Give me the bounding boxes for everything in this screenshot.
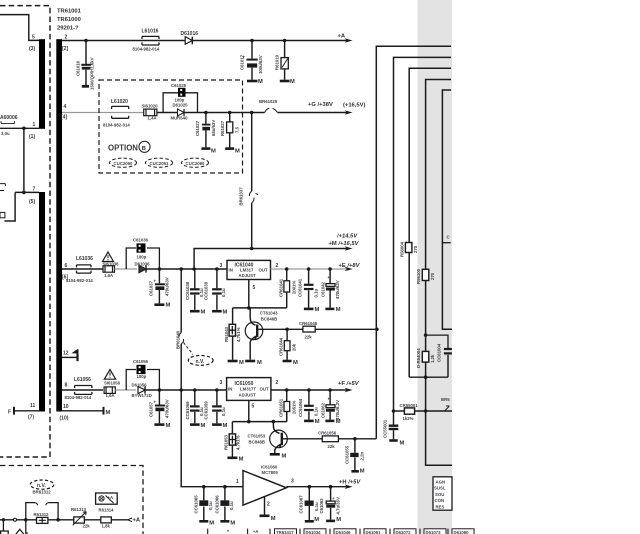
svg-text:M: M: [201, 310, 206, 316]
wire gray to diode: [115, 268, 138, 270]
svg-text:AGN: AGN: [436, 479, 446, 484]
gray option band: [418, 0, 453, 534]
svg-text:D61016: D61016: [181, 31, 199, 37]
svg-text:C61037: C61037: [149, 280, 154, 296]
pin 12 marker: [73, 349, 78, 353]
svg-text:2: 2: [267, 501, 270, 507]
dashed box border: [0, 466, 143, 534]
capacitor C61056 bypass 100p: [126, 370, 159, 391]
svg-text:CC61066: CC61066: [215, 495, 220, 514]
svg-text:/+14,5V: /+14,5V: [336, 234, 358, 240]
svg-text:TR61417: TR61417: [276, 530, 294, 534]
svg-text:+H /+5V: +H /+5V: [339, 479, 361, 485]
svg-text:OPTION: OPTION: [108, 144, 138, 153]
svg-text:2: 2: [276, 263, 279, 269]
svg-text:D61072: D61072: [396, 530, 412, 534]
bracket mark left: [0, 184, 5, 191]
capacitor C61036 bypass 100p: [126, 248, 159, 269]
svg-text:CUC2050: CUC2050: [114, 161, 133, 166]
svg-text:TR61001: TR61001: [57, 9, 82, 15]
svg-text:L61056: L61056: [74, 377, 91, 383]
capacitor CC61067: [305, 487, 314, 522]
svg-text:11: 11: [30, 403, 36, 409]
svg-text:M: M: [106, 410, 111, 416]
svg-text:TR61000: TR61000: [57, 17, 81, 23]
wire ADJ horizontal: [232, 412, 286, 422]
svg-text:CR55001: CR55001: [400, 403, 419, 408]
svg-text:3: 3: [291, 479, 294, 485]
svg-text:R61312: R61312: [34, 512, 50, 517]
svg-text:M: M: [209, 521, 214, 527]
svg-text:470u/63V: 470u/63V: [165, 399, 170, 418]
wire +E rail gray: [271, 268, 347, 270]
capacitor C61027 electrolytic: [201, 113, 210, 149]
svg-text:1: 1: [236, 479, 239, 485]
svg-text:OUT: OUT: [259, 268, 268, 273]
wire bus line 1: [376, 46, 451, 439]
svg-text:BR61037: BR61037: [239, 187, 244, 206]
svg-text:BR61040: BR61040: [175, 330, 180, 349]
warning triangle bottom: [15, 529, 25, 534]
svg-text:R61053: R61053: [224, 434, 229, 450]
wire link to 7805: [181, 390, 243, 487]
svg-text:D61073: D61073: [426, 530, 442, 534]
svg-text:L61016: L61016: [142, 29, 159, 35]
capacitor CC61004: [444, 349, 452, 377]
transformer secondary bar: [56, 39, 62, 411]
svg-text:M: M: [400, 441, 405, 447]
resistor R61019: [280, 41, 290, 82]
capacitor CC61039: [212, 269, 222, 311]
capacitor C61037 electrolytic: [154, 269, 165, 305]
svg-text:0,1u: 0,1u: [221, 288, 226, 297]
svg-text:1500/QP/H1,6kV: 1500/QP/H1,6kV: [90, 57, 95, 90]
svg-text:CC61059: CC61059: [203, 401, 208, 420]
signal box AGN: [433, 477, 452, 510]
wire pin 7: [15, 191, 39, 193]
svg-text:CR61046: CR61046: [299, 321, 318, 326]
svg-text:CC61038: CC61038: [185, 281, 190, 300]
svg-text:SI61056: SI61056: [104, 381, 121, 386]
svg-text:C61027: C61027: [195, 120, 200, 136]
svg-text:LM317T: LM317T: [240, 387, 256, 392]
inductor L61036: [77, 265, 92, 273]
capacitor CC61055 2,2n: [351, 439, 359, 472]
node dot C61016: [84, 39, 88, 43]
wire gray to diode56: [115, 389, 136, 391]
wire junction drop node A: [23, 128, 25, 192]
svg-text:22k: 22k: [328, 444, 336, 449]
trimmer R61043: [228, 308, 238, 361]
svg-text:8104-982-014: 8104-982-014: [133, 46, 160, 51]
transformer primary bar lower: [39, 192, 45, 412]
wire node to IC61040: [146, 268, 227, 270]
arrow +E: [345, 267, 353, 272]
svg-text:100p: 100p: [137, 374, 147, 379]
table box D61046: [334, 529, 356, 534]
svg-text:M: M: [336, 517, 341, 523]
svg-text:3: 3: [220, 263, 223, 269]
wire pin4 gray: [62, 112, 144, 114]
wire ADJ horizontal: [233, 307, 287, 309]
table box D61072: [394, 529, 416, 534]
svg-text:4,7u/35V: 4,7u/35V: [336, 497, 341, 515]
svg-text:C61036: C61036: [133, 238, 149, 243]
jumper BR61040: [179, 333, 184, 345]
svg-text:OUT: OUT: [260, 387, 269, 392]
svg-text:1,4A: 1,4A: [148, 115, 157, 120]
svg-text:RES: RES: [436, 505, 445, 510]
table box D61051: [364, 529, 386, 534]
svg-text:7: 7: [33, 187, 36, 193]
resistor CR55001: [404, 408, 414, 414]
svg-text:CC61065: CC61065: [194, 495, 199, 514]
svg-text:D61036: D61036: [135, 262, 151, 267]
svg-text:2001%: 2001%: [291, 280, 296, 294]
svg-text:CR61044: CR61044: [279, 337, 284, 356]
svg-text:L61020: L61020: [111, 99, 128, 105]
svg-text:CC55001: CC55001: [383, 419, 388, 438]
svg-text:12: 12: [63, 351, 69, 357]
resistor CR61044: [283, 329, 292, 361]
table box D61080: [452, 529, 474, 534]
regulator U3: IC61060 MC7805 triangle: [243, 471, 286, 506]
resistor R56100 on bus4: [422, 269, 429, 280]
svg-text:LM317: LM317: [240, 268, 254, 273]
svg-text:470u/63V: 470u/63V: [165, 277, 170, 296]
svg-text:2: 2: [276, 380, 279, 386]
svg-text:D61046: D61046: [336, 530, 352, 534]
capacitor CC61038: [190, 269, 200, 311]
svg-text:68u/63V: 68u/63V: [211, 120, 216, 136]
inductor L61056: [75, 386, 92, 395]
wire bus line 3: [409, 68, 451, 377]
svg-text:22k: 22k: [305, 335, 313, 340]
svg-text:CC61058: CC61058: [185, 401, 190, 420]
fuse SI61036: [103, 266, 115, 272]
svg-text:5: 5: [253, 285, 256, 291]
transformer primary bar upper: [39, 39, 45, 129]
svg-text:M: M: [271, 516, 276, 522]
svg-text:0,1u: 0,1u: [314, 407, 319, 416]
table box D61034: [304, 529, 326, 534]
svg-text:1,6A: 1,6A: [106, 393, 115, 398]
svg-text:M: M: [336, 419, 341, 425]
resistor CR61046: [303, 326, 315, 332]
resistor CR61051: [284, 390, 290, 422]
bracket under A60006: [1, 121, 15, 123]
capacitor C61057 electrolytic: [154, 390, 165, 425]
svg-text:(+16,5V): (+16,5V): [343, 102, 365, 108]
svg-text:270: 270: [430, 272, 435, 280]
arrow +G: [345, 110, 353, 115]
svg-text:[2]: [2]: [62, 46, 68, 52]
svg-text:0,1u: 0,1u: [208, 501, 213, 510]
capacitor C61042 electrolytic: [325, 269, 335, 309]
wire ADJ pin5: [248, 280, 250, 308]
svg-text:IC61060: IC61060: [261, 464, 278, 469]
wire 7805 ground pin 2: [264, 497, 266, 515]
svg-text:3,0u: 3,0u: [1, 131, 10, 136]
svg-text:M: M: [290, 79, 295, 85]
wire +H rail: [286, 486, 347, 488]
svg-text:CC61041: CC61041: [298, 278, 303, 297]
svg-text:CC61055: CC61055: [344, 445, 349, 464]
svg-text:+E /+8V: +E /+8V: [339, 263, 361, 269]
svg-text:CT61053: CT61053: [248, 433, 266, 438]
resistor R61027: [225, 113, 234, 149]
capacitor CC61059: [212, 390, 222, 425]
svg-text:D61034: D61034: [306, 530, 322, 534]
wire stub C1: [442, 242, 450, 244]
svg-text:29201-?: 29201-?: [57, 26, 79, 32]
svg-text:D61080: D61080: [454, 530, 470, 534]
pin M terminal bottom: [62, 407, 104, 415]
svg-text:BR5: BR5: [441, 397, 450, 402]
svg-text:BYW172D: BYW172D: [132, 393, 152, 398]
svg-text:M: M: [258, 79, 263, 85]
wire node to IC61050: [145, 389, 227, 391]
pin F terminal: [14, 407, 39, 415]
svg-text:C61017: C61017: [240, 54, 245, 70]
svg-text:+A: +A: [253, 529, 259, 534]
wire pin 1: [0, 127, 39, 129]
svg-text:*: *: [227, 530, 229, 534]
svg-text:1,2k: 1,2k: [430, 354, 435, 363]
table box TR61417: [275, 529, 297, 534]
table box D61073: [424, 529, 446, 534]
connector box left edge: [0, 212, 5, 217]
transistor Q1: CT61043 BC846B: [245, 322, 263, 340]
svg-text:[4]: [4]: [61, 115, 67, 121]
svg-text:1: 1: [33, 122, 36, 128]
svg-text:CC61067: CC61067: [298, 495, 303, 514]
svg-text:+A: +A: [133, 517, 141, 523]
svg-text:M: M: [166, 423, 171, 429]
svg-text:0,1u: 0,1u: [229, 501, 234, 510]
svg-text:D-R64004: D-R64004: [416, 348, 421, 368]
svg-text:SI61020: SI61020: [142, 103, 159, 108]
resistor DR64004 on bus4: [422, 351, 429, 362]
svg-text:+G /+38V: +G /+38V: [308, 102, 333, 108]
svg-text:(10): (10): [60, 416, 69, 422]
wire ADJ pin5: [248, 400, 250, 421]
wire BR61040 vertical upper: [180, 269, 182, 333]
left block dashed border: [0, 6, 50, 457]
wire +A rail: [62, 40, 348, 42]
capacitor CC61065: [199, 487, 208, 522]
svg-text:M: M: [315, 307, 320, 313]
svg-text:IN: IN: [228, 387, 232, 392]
svg-text:2: 2: [65, 35, 68, 41]
svg-text:L61036: L61036: [76, 256, 93, 262]
arrow +M: [345, 246, 353, 251]
capacitor CC61064: [304, 390, 314, 421]
wire bus line 4: [426, 80, 452, 466]
resistor R56004 on bus3: [405, 243, 412, 253]
capacitor C61062 electrolytic: [325, 390, 335, 421]
svg-text:M: M: [314, 517, 319, 523]
svg-text:R61019: R61019: [275, 54, 280, 70]
svg-text:C61025: C61025: [171, 83, 187, 88]
svg-text:0,1u: 0,1u: [221, 407, 226, 416]
svg-text:A60006: A60006: [0, 115, 18, 121]
wire main row: [0, 519, 128, 521]
svg-text:B: B: [142, 146, 146, 152]
svg-text:R61043: R61043: [224, 326, 229, 342]
svg-text:CC61039: CC61039: [203, 281, 208, 300]
wire to pin 5: [0, 15, 39, 41]
arrow +H: [345, 484, 353, 489]
jumper BR61037: [249, 191, 254, 203]
svg-text:ADJUST: ADJUST: [239, 393, 257, 398]
svg-text:4,7k1%: 4,7k1%: [236, 435, 241, 450]
svg-text:M: M: [239, 457, 244, 463]
svg-text:n.V.: n.V.: [196, 359, 205, 365]
svg-text:C61016: C61016: [76, 60, 81, 76]
wire base to bus: [338, 438, 376, 440]
svg-text:2,2n: 2,2n: [360, 452, 365, 461]
wire left stub: [5, 192, 16, 221]
svg-text:M: M: [235, 149, 240, 155]
svg-text:R61027: R61027: [220, 120, 225, 136]
inductor L61020: [112, 106, 129, 118]
wire +M rail: [194, 249, 347, 270]
svg-text:F: F: [8, 410, 11, 416]
svg-text:4,7k1%: 4,7k1%: [236, 327, 241, 342]
wire base CT61053: [283, 438, 322, 440]
resistor R61313 variable: [74, 517, 85, 523]
svg-text:8104-982-014: 8104-982-014: [65, 395, 92, 400]
wire BR61037 vertical: [251, 113, 253, 192]
svg-text:CC61064: CC61064: [298, 398, 303, 417]
svg-text:SUSL: SUSL: [434, 486, 446, 491]
svg-text:C61057: C61057: [149, 401, 154, 417]
corner box bottom left: [1, 531, 9, 534]
svg-text:R61313: R61313: [71, 507, 87, 512]
svg-text:M: M: [282, 453, 287, 459]
svg-text:CR61041: CR61041: [278, 278, 283, 297]
wire +G out: [278, 112, 348, 114]
svg-text:C61042: C61042: [321, 281, 326, 297]
svg-text:M: M: [293, 360, 298, 366]
wire bottom link y377: [409, 376, 448, 378]
svg-text:D61025: D61025: [173, 103, 189, 108]
wire +G mid: [157, 112, 265, 114]
svg-text:C: C: [447, 235, 450, 240]
svg-text:CON: CON: [435, 498, 445, 503]
svg-text:BC848B: BC848B: [249, 439, 265, 444]
svg-text:1k2%: 1k2%: [403, 416, 414, 421]
capacitor C61063 electrolytic 4,7u: [326, 487, 335, 521]
svg-text:(7): (7): [28, 415, 34, 421]
jumper BR61312 loop: [26, 503, 58, 520]
wire cap link: [426, 335, 448, 348]
option oval CUC2051: [146, 158, 173, 167]
OPTION dashed box: [99, 80, 243, 173]
svg-text:SOU: SOU: [435, 492, 444, 497]
svg-text:R61314: R61314: [99, 508, 115, 513]
svg-text:8104-982-014: 8104-982-014: [103, 122, 130, 127]
svg-text:MC7805: MC7805: [262, 470, 279, 475]
svg-text:+M /+16,5V: +M /+16,5V: [329, 241, 360, 247]
svg-text:5: 5: [252, 404, 255, 410]
LDR icon box: [96, 493, 118, 504]
wire drop to box: [2, 520, 4, 531]
capacitor C61017 electrolytic: [247, 41, 258, 82]
wire down from node: [25, 520, 27, 534]
svg-text:470u/63V: 470u/63V: [335, 280, 340, 299]
svg-text:M: M: [315, 419, 320, 425]
svg-text:M: M: [211, 149, 216, 155]
svg-text:3: 3: [220, 380, 223, 386]
option oval CUC2050: [110, 158, 137, 167]
fuse SI61020: [144, 109, 157, 116]
terminal circle: [14, 518, 17, 521]
resistor CR61041: [284, 269, 290, 308]
wire CR55001 row: [394, 410, 453, 412]
svg-text:M: M: [230, 521, 235, 527]
resistor CR61056: [322, 436, 338, 442]
svg-text:C61056: C61056: [133, 359, 149, 364]
svg-text:CUC2051: CUC2051: [150, 161, 169, 166]
svg-text:n.V.: n.V.: [37, 483, 46, 489]
svg-text:6: 6: [65, 263, 68, 269]
node dot 7: [22, 191, 26, 195]
svg-text:(3): (3): [29, 46, 35, 52]
wire bus line 2: [394, 57, 452, 411]
capacitor CC61041: [304, 269, 314, 309]
fuse SI61056 warning triangle: [104, 370, 115, 380]
op-amp U1: IC61040 regulator box: [227, 260, 271, 279]
wire +F rail: [271, 389, 348, 391]
svg-text:BC846B: BC846B: [261, 316, 277, 321]
svg-text:22k: 22k: [83, 524, 91, 529]
oval n.V. BR61312: [30, 480, 54, 489]
svg-text:CR61056: CR61056: [318, 430, 337, 435]
svg-text:CR61051: CR61051: [278, 398, 283, 417]
svg-text:8: 8: [65, 383, 68, 389]
svg-text:M: M: [223, 423, 228, 429]
op-amp U2: IC61050 regulator box: [227, 378, 271, 401]
capacitor CC61058: [190, 390, 200, 425]
svg-text:270: 270: [413, 245, 418, 253]
svg-text:M: M: [166, 303, 171, 309]
svg-text:(1): (1): [29, 134, 35, 140]
svg-text:C61063: C61063: [319, 498, 324, 514]
svg-text:0,1u: 0,1u: [313, 289, 318, 298]
svg-text:D61051: D61051: [366, 530, 382, 534]
svg-text:M: M: [239, 360, 244, 366]
svg-text:+A: +A: [338, 33, 346, 39]
svg-text:7,5: 7,5: [235, 126, 240, 133]
svg-text:CUC2080: CUC2080: [186, 161, 205, 166]
node dot 1: [22, 127, 26, 131]
inductor L61016: [142, 36, 159, 45]
svg-text:1,6A: 1,6A: [104, 273, 113, 278]
wire bus line 5: [442, 90, 452, 329]
svg-text:10: 10: [63, 404, 69, 410]
diode D61016: [185, 37, 192, 45]
svg-text:8104-982-014: 8104-982-014: [66, 278, 93, 283]
pin 12 unused stub: [62, 354, 78, 362]
svg-text:MUR540: MUR540: [171, 115, 189, 120]
svg-text:ADJUST: ADJUST: [239, 273, 257, 278]
svg-text:(5): (5): [29, 199, 35, 205]
open arrow +A: [128, 518, 133, 522]
svg-text:IN: IN: [229, 268, 233, 273]
svg-text:M: M: [223, 310, 228, 316]
